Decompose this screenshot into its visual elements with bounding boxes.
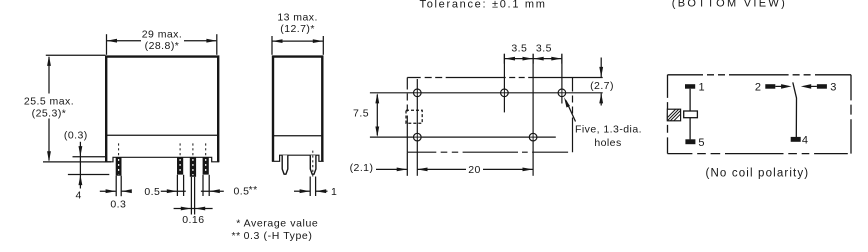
front view bottom profile with feet	[105, 157, 219, 162]
dimension 13 max (12.7) side width	[272, 36, 323, 55]
dimension 4 pin length	[68, 174, 109, 176]
svg-text:0.5: 0.5	[144, 186, 160, 198]
dimension (0.3) stand-off	[73, 142, 106, 189]
front view body outline (thick)	[106, 57, 218, 162]
top hole row centerline	[370, 92, 603, 94]
svg-text:(0.3): (0.3)	[64, 130, 88, 142]
footnote average value	[232, 218, 319, 242]
svg-text:3.5: 3.5	[511, 43, 527, 55]
dimension (2.7)	[573, 58, 603, 106]
svg-text:0.3 (-H Type): 0.3 (-H Type)	[244, 230, 313, 242]
switch fixed contact 2 arrow	[775, 85, 786, 87]
dimension 1 side pin width	[294, 177, 328, 197]
pin 4 front	[203, 143, 209, 174]
svg-text:**: **	[232, 230, 241, 242]
svg-text:3.5: 3.5	[536, 43, 552, 55]
terminal diagram dashed rectangle	[668, 75, 852, 154]
svg-text:5: 5	[698, 137, 704, 149]
svg-text:(No coil polarity): (No coil polarity)	[706, 167, 810, 179]
switch armature from terminal 4	[793, 82, 797, 137]
svg-text:25.5 max.: 25.5 max.	[24, 96, 74, 108]
svg-text:(12.7)*: (12.7)*	[280, 23, 315, 35]
svg-text:1: 1	[699, 82, 705, 94]
title Tolerance (cut off at top)	[420, 0, 547, 10]
pin 2 front	[177, 143, 183, 174]
svg-text:Average value: Average value	[244, 218, 319, 230]
svg-text:*: *	[236, 218, 241, 230]
dimension 0.5** pin4 width	[201, 175, 224, 196]
svg-text:13 max.: 13 max.	[277, 11, 318, 23]
svg-text:**: **	[249, 184, 258, 196]
side view bottom profile with feet	[272, 155, 324, 161]
title BOTTOM VIEW (cut off at top)	[672, 0, 787, 10]
svg-text:4: 4	[802, 135, 808, 147]
terminal 4 mark	[791, 135, 808, 147]
svg-text:Five, 1.3-dia.: Five, 1.3-dia.	[575, 124, 642, 136]
dimension 0.16 pin3 thickness	[174, 177, 213, 215]
hole top-right	[558, 89, 566, 97]
side pin B	[310, 155, 316, 174]
switch fixed contact 3 arrow	[806, 85, 817, 87]
dimension 0.3 pin1 width	[100, 176, 130, 197]
side pin A	[282, 155, 288, 174]
optional hole dashed box	[406, 110, 422, 123]
side view body outline (thick)	[273, 57, 322, 162]
svg-text:0.3: 0.3	[110, 198, 126, 210]
terminal 5 mark	[685, 137, 704, 149]
terminal 1 mark	[685, 82, 705, 94]
bottom hole row centerline	[370, 136, 556, 138]
svg-text:holes: holes	[594, 137, 621, 149]
hole column line left	[416, 79, 418, 176]
svg-text:1: 1	[331, 186, 337, 198]
coil wire top	[689, 89, 691, 111]
svg-text:(BOTTOM VIEW): (BOTTOM VIEW)	[672, 0, 787, 10]
dimension 29 max (28.8) top width	[107, 34, 217, 55]
svg-text:(2.1): (2.1)	[350, 162, 374, 174]
dimension (2.1) and 20	[376, 152, 533, 176]
svg-text:(25.3)*: (25.3)*	[32, 107, 67, 119]
svg-text:(28.8)*: (28.8)*	[145, 40, 180, 52]
hatched box on left edge	[667, 109, 680, 121]
side view case separation line	[274, 135, 322, 137]
dimension 3.5 / 3.5	[504, 54, 562, 64]
hole top-middle	[501, 89, 509, 97]
hole column line top right	[561, 54, 563, 104]
caption no coil polarity	[706, 167, 810, 179]
pin 1 front (coil pin)	[116, 143, 122, 175]
footprint dashed rectangle	[407, 78, 572, 153]
coil box	[684, 111, 698, 118]
svg-text:2: 2	[755, 82, 761, 94]
dimension 0.5 pin2 width	[161, 175, 186, 196]
svg-text:Tolerance: ±0.1 mm: Tolerance: ±0.1 mm	[420, 0, 547, 10]
terminal 3 mark	[817, 82, 836, 94]
side pin B centerline	[312, 151, 314, 177]
hole top-left	[414, 89, 422, 97]
hole column line bottom right	[532, 54, 534, 176]
svg-text:29 max.: 29 max.	[142, 28, 183, 40]
dimension 25.5 max (25.3) left height	[43, 55, 111, 162]
terminal 2 mark	[755, 82, 775, 94]
svg-text:20: 20	[468, 164, 481, 176]
svg-text:(2.7): (2.7)	[590, 80, 614, 92]
svg-text:0.5: 0.5	[234, 186, 250, 198]
front view case separation line	[107, 134, 218, 136]
hole cross marks	[413, 89, 566, 142]
hole bottom-left	[414, 133, 422, 141]
svg-text:4: 4	[75, 190, 81, 202]
svg-text:3: 3	[830, 82, 836, 94]
hole column line top middle	[503, 54, 505, 113]
coil wire bottom	[689, 118, 691, 140]
svg-text:7.5: 7.5	[353, 107, 369, 119]
label Five 1.3-dia holes with leader arrow	[566, 101, 576, 122]
dimension 7.5	[376, 95, 378, 136]
pin 3 front (middle thin pin)	[190, 143, 196, 176]
hole bottom-right	[529, 133, 537, 141]
svg-text:0.16: 0.16	[182, 214, 204, 226]
